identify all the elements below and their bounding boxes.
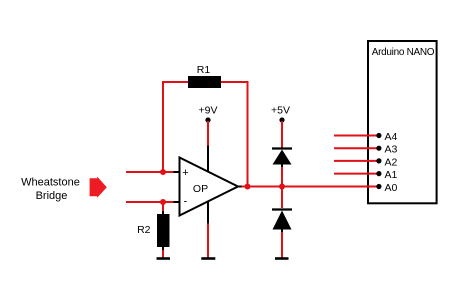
wire output stub bbox=[238, 186, 242, 188]
resistor R2 bbox=[137, 214, 169, 247]
wire A4 bbox=[334, 135, 379, 137]
op-amp U1 bbox=[180, 158, 239, 216]
svg-text:+: + bbox=[182, 167, 188, 179]
svg-text:R1: R1 bbox=[197, 64, 211, 76]
svg-text:-: - bbox=[184, 195, 188, 207]
label Wheatstone Bridge bbox=[21, 177, 80, 202]
ground op-amp bbox=[201, 257, 215, 260]
wire feedback left vertical bbox=[163, 82, 188, 172]
svg-text:Wheatstone: Wheatstone bbox=[21, 177, 80, 189]
wire R2 to ground bbox=[162, 250, 164, 258]
pin V+ stub bbox=[207, 146, 209, 172]
diode D1 bbox=[272, 149, 292, 168]
wire D2 to ground bbox=[281, 232, 283, 258]
junction noninverting node bbox=[160, 169, 166, 175]
wire A2 bbox=[334, 160, 379, 162]
pin A2 bbox=[376, 156, 397, 168]
wire R2 top bbox=[162, 202, 164, 212]
wire A3 bbox=[334, 147, 379, 149]
svg-text:A1: A1 bbox=[385, 169, 398, 181]
input source arrow bbox=[90, 177, 107, 198]
Arduino NANO U2 bbox=[368, 41, 437, 203]
junction inverting node bbox=[160, 199, 166, 205]
supply +9V bbox=[199, 104, 218, 146]
wire clamp node vertical bbox=[281, 167, 283, 208]
svg-text:A2: A2 bbox=[385, 156, 398, 168]
svg-text:+5V: +5V bbox=[271, 104, 290, 116]
pin A3 bbox=[376, 144, 397, 156]
pin A0 bbox=[376, 182, 397, 194]
junction output node bbox=[245, 184, 251, 190]
resistor R1 bbox=[188, 64, 221, 88]
pin 3 noninverting stub bbox=[174, 171, 181, 173]
wire output to A0 bbox=[242, 186, 379, 188]
diode D2 bbox=[272, 210, 292, 233]
wire noninverting input bbox=[126, 171, 174, 173]
pin A4 bbox=[376, 131, 397, 143]
svg-text:Arduino NANO: Arduino NANO bbox=[372, 47, 435, 58]
pin 2 inverting stub bbox=[174, 201, 181, 203]
ground R2 bbox=[157, 257, 171, 260]
ground D2 bbox=[275, 257, 289, 260]
wire A1 bbox=[334, 173, 379, 175]
svg-text:R2: R2 bbox=[137, 224, 151, 236]
svg-text:OP: OP bbox=[193, 183, 208, 195]
pin V- stub bbox=[207, 201, 209, 224]
svg-text:A0: A0 bbox=[385, 182, 398, 194]
supply +5V bbox=[271, 104, 290, 147]
wire inverting input bbox=[126, 201, 174, 203]
pin R2 top stub bbox=[162, 211, 164, 215]
svg-text:A4: A4 bbox=[385, 131, 398, 143]
svg-text:A3: A3 bbox=[385, 144, 398, 156]
wire R1 right to output node bbox=[221, 82, 248, 187]
wire op-amp to ground bbox=[207, 224, 209, 258]
svg-text:+9V: +9V bbox=[199, 104, 218, 116]
junction clamp node bbox=[279, 184, 285, 190]
pin R2 bottom stub bbox=[162, 247, 164, 251]
svg-text:Bridge: Bridge bbox=[36, 190, 68, 202]
pin A1 bbox=[376, 169, 397, 181]
